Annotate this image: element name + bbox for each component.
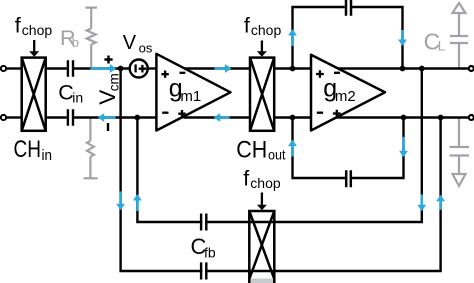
label Rb bbox=[60, 26, 79, 50]
arrow fchop to CHin bbox=[29, 40, 39, 57]
junction dot output top loop bbox=[400, 66, 406, 72]
gm2 plus mark top bbox=[316, 70, 324, 78]
svg-text:b: b bbox=[72, 35, 79, 50]
svg-text:f: f bbox=[244, 13, 250, 37]
chopper CHin bbox=[22, 58, 46, 131]
capacitor CL top (gray) bbox=[450, 3, 468, 69]
capacitor Cfb lower bbox=[201, 262, 206, 279]
svg-text:in: in bbox=[72, 90, 83, 106]
wire gm2 to output top bbox=[338, 67, 468, 69]
wire bottom rail input bbox=[6, 116, 156, 118]
node Vcm plus mark bbox=[104, 56, 112, 64]
wire CHout to gm2 top bbox=[274, 67, 311, 69]
output terminal bottom bbox=[469, 115, 474, 120]
junction dot top input node bbox=[118, 66, 124, 72]
svg-text:V: V bbox=[123, 32, 137, 54]
gm1 minus mark top bbox=[180, 72, 186, 74]
svg-text:cm: cm bbox=[107, 73, 122, 91]
compensation capacitor loop top bbox=[293, 0, 403, 69]
blue arrow right on top bbox=[215, 64, 232, 73]
blue arrow up (right fb, x=440.6) bbox=[436, 195, 445, 210]
capacitor Cin top bbox=[68, 60, 73, 77]
junction dot output bottom loop bbox=[401, 115, 407, 121]
gm1 minus mark bottom bbox=[162, 112, 168, 114]
wire top rail input bbox=[6, 67, 156, 69]
label Vcm (rotated) bbox=[95, 73, 122, 105]
compensation capacitor loop bottom bbox=[293, 118, 404, 188]
svg-text:out: out bbox=[268, 147, 286, 163]
wire gm1 to CHout top bbox=[185, 67, 251, 69]
arrow fchop to feedback chopper bbox=[257, 193, 267, 211]
blue arrow left on bottom bbox=[214, 113, 230, 122]
label CL bbox=[424, 28, 446, 54]
blue arrow down (left fb, x=120.6) bbox=[116, 191, 125, 210]
op-amp gm2 bbox=[311, 55, 385, 131]
input terminal top bbox=[1, 66, 6, 71]
svg-text:L: L bbox=[438, 39, 446, 54]
svg-text:CH: CH bbox=[14, 136, 42, 163]
blue arrow up (left fb, x=137.3) bbox=[133, 194, 142, 211]
blue arrow up (top loop left) bbox=[288, 29, 297, 46]
chopper CHout bbox=[250, 58, 274, 131]
wire gm2 to output bottom bbox=[337, 116, 469, 118]
junction dot feedback tap bottom rail bbox=[438, 115, 444, 121]
junction dot CHout bottom bbox=[290, 115, 296, 121]
svg-text:in: in bbox=[42, 147, 53, 164]
blue arrow out of bottom input node bbox=[98, 113, 116, 122]
svg-text:m2: m2 bbox=[335, 88, 356, 105]
svg-text:chop: chop bbox=[22, 22, 53, 38]
feedback wire upper (bottom output to upper fb line) bbox=[137, 69, 421, 223]
blue arrow down (top loop right) bbox=[398, 30, 407, 46]
wire CHout to gm2 bottom bbox=[274, 116, 311, 118]
gm1 plus mark bottom bbox=[178, 110, 185, 117]
svg-text:f: f bbox=[15, 14, 21, 38]
node Vcm minus mark (rotated) bbox=[107, 123, 109, 131]
op-amp gm1 bbox=[156, 54, 230, 131]
blue arrow up (bottom loop left) bbox=[288, 140, 297, 157]
svg-text:m1: m1 bbox=[180, 88, 201, 105]
output terminal top bbox=[469, 66, 474, 71]
gm2 minus mark bottom bbox=[317, 112, 323, 114]
junction dot CHout top bbox=[290, 66, 296, 72]
blue arrow down (bottom loop right) bbox=[399, 137, 408, 158]
resistor Rb top (gray) bbox=[86, 8, 98, 68]
input terminal bottom bbox=[1, 115, 6, 120]
capacitor Cfb upper bbox=[201, 214, 206, 231]
svg-text:fb: fb bbox=[204, 245, 216, 261]
svg-text:os: os bbox=[139, 40, 153, 55]
arrow fchop to CHout bbox=[257, 41, 267, 57]
capacitor Cin bottom bbox=[68, 109, 73, 126]
voltage source Vos bbox=[130, 60, 148, 78]
svg-text:f: f bbox=[243, 166, 249, 190]
blue arrow down (right fb, x=421.8) bbox=[417, 195, 426, 212]
gray bar at bottom of feedback chopper bbox=[251, 279, 274, 283]
feedback wire lower (top node to lower fb line) bbox=[121, 69, 441, 272]
blue arrow into top input node bbox=[90, 64, 116, 73]
capacitor CL bottom (gray) bbox=[450, 118, 470, 187]
svg-text:chop: chop bbox=[250, 175, 281, 191]
gm1 plus mark top bbox=[161, 71, 168, 78]
junction dot feedback tap top rail bbox=[419, 66, 425, 72]
gm2 plus mark bottom bbox=[333, 110, 341, 118]
gm2 minus mark top bbox=[334, 72, 340, 74]
junction dot bottom input node bbox=[134, 115, 140, 121]
svg-text:chop: chop bbox=[251, 22, 282, 38]
wire gm1 to CHout bottom bbox=[184, 116, 251, 118]
chopper feedback bbox=[249, 211, 274, 283]
resistor Rb bottom (gray) bbox=[84, 118, 98, 178]
svg-text:CH: CH bbox=[236, 137, 267, 164]
